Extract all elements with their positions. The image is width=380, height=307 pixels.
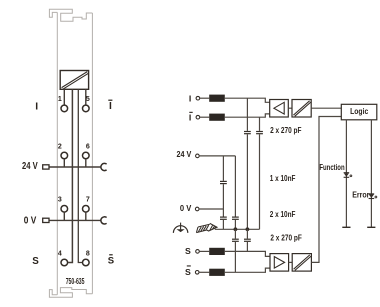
stub wire box to contact 1: [63, 89, 65, 104]
svg-text:I: I: [109, 101, 112, 112]
plug symbol 24V: [43, 165, 49, 169]
svg-text:I: I: [35, 102, 38, 113]
capacitor C5 (0V to earth): [220, 216, 227, 218]
contact circle 2: [61, 152, 68, 159]
module housing bottom profile: [49, 288, 92, 298]
wire 24V (schematic): [199, 155, 235, 157]
contact circle 8: [83, 259, 90, 266]
wire I-bar to filter box: [225, 114, 270, 117]
Function LED D1: [344, 173, 352, 178]
svg-text:24 V: 24 V: [177, 149, 192, 159]
wire isolator to Logic: [311, 107, 341, 109]
junction dot (C1 leg / bus): [246, 227, 250, 231]
ferrite bead I: [209, 95, 225, 102]
Function LED line: [345, 120, 347, 228]
terminal circle S: [196, 250, 200, 254]
jumper contact socket 0V: [101, 217, 107, 224]
svg-text:8: 8: [86, 250, 90, 257]
contact circle 4: [61, 259, 68, 266]
electronics box with isolation diagonal (module): [60, 71, 88, 90]
capacitor C7 (bus to S): [246, 229, 248, 238]
ferrite bead S-bar: [209, 269, 225, 276]
Error LED line: [370, 120, 372, 228]
svg-text:Logic: Logic: [350, 106, 368, 116]
isolator box (input channel): [292, 100, 311, 118]
svg-text:6: 6: [86, 143, 90, 150]
DIN rail contact arrow: [196, 223, 217, 232]
svg-text:I: I: [189, 93, 191, 103]
svg-text:I: I: [189, 112, 191, 122]
svg-text:750-635: 750-635: [66, 277, 85, 286]
ferrite bead I-bar: [209, 114, 225, 121]
svg-text:1: 1: [58, 96, 62, 103]
wire 0V (schematic): [199, 208, 223, 210]
internal bus wire B (box to contact 8): [78, 89, 82, 262]
functional earth symbol: [173, 223, 187, 233]
terminal circle I: [196, 96, 200, 100]
capacitor C1 vertical (from I wire): [246, 98, 248, 131]
terminal circle I-bar: [196, 115, 200, 119]
svg-text:24 V: 24 V: [22, 161, 38, 172]
svg-text:2: 2: [58, 143, 62, 150]
comparator box U1: [270, 100, 289, 118]
earth bus wire: [215, 228, 260, 230]
contact circle 5: [83, 105, 90, 112]
terminal circle S-bar: [195, 271, 199, 275]
svg-text:S: S: [185, 267, 191, 277]
wire U1 to isolator: [288, 107, 292, 109]
wire I to filter box: [225, 98, 270, 102]
svg-text:0 V: 0 V: [180, 203, 192, 213]
contact circle 3: [61, 206, 68, 213]
label I-bar (module right): [108, 100, 112, 112]
wire I-bar input: [200, 116, 210, 118]
label S-bar (module right): [108, 254, 114, 266]
svg-text:S: S: [185, 246, 191, 256]
svg-text:2 x 270 pF: 2 x 270 pF: [270, 233, 301, 242]
module housing top profile: [49, 9, 92, 21]
stem contact 6 to 24V wire: [85, 159, 87, 167]
jumper contact socket 24V: [101, 163, 107, 170]
wire I input: [200, 97, 210, 99]
svg-text:3: 3: [58, 197, 62, 204]
contact circle 6: [83, 152, 90, 159]
wire S-bar input: [199, 271, 209, 273]
ferrite bead S: [209, 248, 225, 255]
svg-text:5: 5: [86, 96, 90, 103]
wire 24V feed (module): [49, 166, 101, 168]
wire S to driver box: [225, 251, 270, 256]
svg-text:Function: Function: [319, 163, 344, 172]
junction dot (24V drop / bus): [234, 227, 238, 231]
wire U2 to isolator: [289, 261, 293, 263]
contact circle 7: [83, 206, 90, 213]
wire 0V feed (module): [49, 219, 101, 221]
Logic box U3: [341, 104, 377, 120]
terminal circle 24V: [196, 154, 200, 158]
driver box U2: [270, 254, 289, 272]
stem contact 7 to 0V wire: [85, 213, 87, 221]
contact circle 1: [61, 105, 68, 112]
label S-bar (schematic): [185, 265, 191, 277]
svg-text:S: S: [32, 256, 39, 267]
capacitor C4 chain 24V-0V: [222, 156, 224, 181]
svg-text:1 x 10nF: 1 x 10nF: [270, 174, 296, 183]
svg-text:0 V: 0 V: [24, 215, 37, 226]
terminal circle 0V: [195, 207, 199, 211]
stub wire box to contact 5: [85, 89, 87, 104]
isolator box (output channel): [292, 254, 311, 272]
module housing left edge: [56, 12, 58, 294]
plug symbol 0V: [43, 218, 49, 222]
wire S-bar to driver box: [225, 268, 270, 272]
stem contact 2 to 24V wire: [63, 159, 65, 167]
svg-text:2 x 270 pF: 2 x 270 pF: [270, 126, 301, 135]
wire isolator to Logic (S channel riser): [311, 117, 341, 263]
internal bus wire A (box to contact 4): [68, 89, 72, 262]
wire 24V drop with capacitor C3: [234, 156, 236, 217]
label I-bar (schematic): [189, 112, 193, 123]
module housing right edge: [91, 13, 93, 294]
Error LED D2: [369, 194, 377, 199]
svg-text:7: 7: [86, 197, 90, 204]
capacitor C6 (bus to S-bar): [234, 229, 236, 238]
capacitor C2 vertical (from I-bar wire): [259, 117, 261, 131]
svg-text:4: 4: [58, 250, 62, 257]
wire S input: [199, 250, 209, 252]
svg-text:S: S: [108, 255, 114, 266]
svg-text:2 x 10nF: 2 x 10nF: [270, 210, 296, 219]
svg-text:Error: Error: [352, 190, 370, 199]
stem contact 3 to 0V wire: [63, 213, 65, 221]
